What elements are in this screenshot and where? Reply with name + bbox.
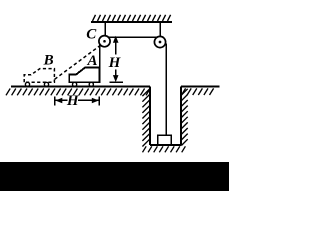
dimension H vertical line [109,36,123,82]
cart B left wheel [25,82,29,86]
cart A body [69,68,99,83]
pit bottom [150,144,181,146]
dimension H horizontal line [55,96,100,105]
right pulley support wire [159,22,161,43]
svg-text:B: B [43,53,54,69]
wire: dashed rope from cart position B to pulley C [55,45,101,79]
svg-text:A: A [86,53,97,69]
pit bottom hatching [143,146,186,152]
wire: rope from right pulley down to weight [165,43,167,135]
pulley C support wire [104,22,106,42]
ground line left [11,85,150,87]
weight block in pit [158,135,172,145]
cart B right wheel [44,82,48,86]
wire: rope between pulleys [106,36,158,38]
ground hatching right [182,88,214,95]
black bar at bottom [0,162,229,191]
pit left wall [149,86,151,144]
pulley C [99,36,110,47]
pit right wall [180,86,182,144]
ceiling line [91,21,172,23]
pit right wall hatching [181,89,187,146]
right pulley [154,36,165,47]
wire: rope from cart A to pulley C [99,43,101,82]
svg-text:H: H [108,55,122,71]
cart A left wheel [73,82,77,86]
ground hatching left [6,89,150,96]
pit left wall hatching [142,89,149,147]
ceiling hatching [93,15,171,21]
cart B (dashed previous position) [24,69,54,83]
ground line right [181,85,220,87]
cart A right wheel [89,82,93,86]
svg-text:C: C [86,27,97,43]
svg-text:H: H [66,93,80,109]
